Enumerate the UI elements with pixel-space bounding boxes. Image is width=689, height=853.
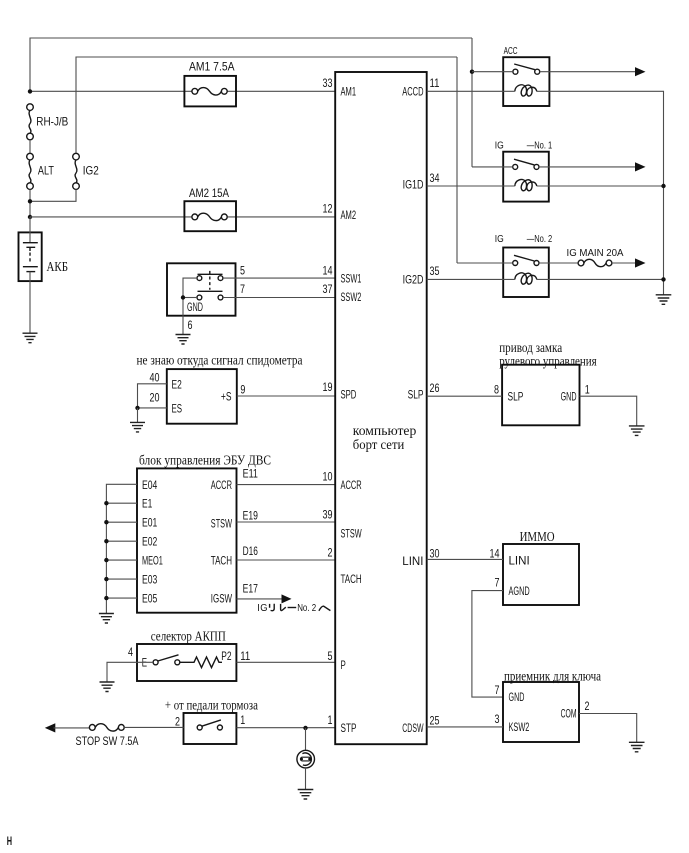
svg-text:борт сети: борт сети: [353, 438, 405, 453]
junction E01: [104, 520, 108, 524]
junction E02: [104, 539, 108, 543]
IG2D pin label: [403, 272, 424, 286]
SEC-ECU: [323, 72, 440, 744]
wire ACCR to ECU pin 10: [237, 484, 336, 486]
svg-text:30: 30: [430, 547, 440, 561]
wire IG2 switch to fuse: [539, 262, 578, 264]
wire AM1 fuse line (node B+ to ECU pin 33): [30, 90, 335, 92]
svg-text:E1: E1: [142, 497, 153, 511]
svg-text:34: 34: [430, 171, 440, 185]
svg-text:D16: D16: [243, 544, 259, 558]
wire COM to ground: [579, 714, 637, 743]
ACCD pin label: [402, 85, 423, 99]
SLP label: [508, 390, 524, 404]
wire IG1 switch feed: [472, 166, 513, 168]
IG MAIN 20A label: [567, 248, 624, 259]
pin 7 label (GND): [495, 683, 500, 697]
svg-text:ALT: ALT: [38, 164, 55, 178]
svg-text:IGSW: IGSW: [211, 592, 233, 606]
title body computer: [353, 424, 417, 453]
pin 14 label: [323, 263, 333, 277]
svg-text:компьютер: компьютер: [353, 424, 417, 439]
note IG relay No.2 destination: [257, 603, 330, 614]
pushbutton contact row 1 (SSW1): [197, 271, 223, 281]
svg-text:1: 1: [240, 713, 245, 727]
pin 10 label: [323, 470, 333, 484]
SEC-BRAKE: [45, 699, 335, 800]
AGND label: [509, 584, 530, 598]
arrow to battery feed (left): [45, 723, 56, 732]
relay ACC: [503, 57, 549, 106]
pin 33 label: [323, 76, 333, 90]
wire RH-J/B to ALT: [29, 140, 31, 154]
wire AM2 fuse line (to ECU pin 12): [30, 216, 335, 218]
svg-text:10: 10: [323, 470, 333, 484]
SEC-SPD: [130, 353, 335, 432]
svg-text:35: 35: [430, 264, 440, 278]
key receiver block: [503, 682, 579, 742]
svg-text:19: 19: [323, 380, 333, 394]
svg-text:IG1D: IG1D: [403, 178, 424, 192]
svg-text:12: 12: [323, 202, 333, 216]
svg-text:2: 2: [175, 714, 180, 728]
wire IG2 feed to IG No.2 relay: [76, 57, 457, 153]
pin 34 label: [430, 171, 440, 185]
title from brake pedal: [165, 699, 259, 714]
SPD pin label: [341, 388, 357, 402]
E02 label: [142, 535, 158, 549]
ground relay coils: [656, 295, 672, 305]
SEC-EBU: [99, 454, 335, 624]
svg-text:11: 11: [430, 76, 440, 90]
pin 1 label: [328, 713, 333, 727]
pin 26 label: [430, 381, 440, 395]
LINI label (IMMO): [509, 553, 530, 567]
fuse AM2 15A: [184, 186, 236, 231]
svg-text:2: 2: [328, 546, 333, 560]
svg-text:+ от педали тормоза: + от педали тормоза: [165, 699, 259, 714]
svg-text:E03: E03: [142, 573, 158, 587]
svg-text:селектор АКПП: селектор АКПП: [151, 630, 226, 645]
connector RH-J/B: [27, 104, 69, 140]
svg-text:9: 9: [240, 383, 245, 397]
brake switch block: [184, 713, 237, 744]
MEO1 label: [142, 554, 163, 568]
pin 2 label: [175, 714, 180, 728]
SEC-RIGHTBLOCKS: [427, 341, 645, 752]
switch contact selector: [153, 655, 180, 665]
wire ECU pin 11 to ACC coil: [427, 90, 515, 92]
pin 6 label: [188, 318, 193, 332]
svg-text:ACC: ACC: [504, 46, 518, 57]
wire IG2 vertical to relay No.2 switch: [456, 57, 458, 263]
ACCR label (inside): [211, 478, 232, 492]
wire ECU pin 35 to IG2 coil: [427, 278, 515, 280]
svg-text:E04: E04: [142, 478, 158, 492]
wire ECU pin 30 to LINI: [427, 558, 503, 560]
svg-text:не знаю откуда сигнал спидомет: не знаю откуда сигнал спидометра: [137, 353, 304, 368]
junction ES/ground: [135, 406, 139, 410]
wire battery-plus top feed to ACC/IG1 relays: [30, 38, 472, 91]
wire pin 4 to ground: [107, 662, 153, 682]
ground noise filter: [298, 790, 314, 800]
+S label: [221, 389, 232, 403]
wire ECU pin 26 to SLP: [427, 395, 502, 397]
svg-text:E01: E01: [142, 516, 158, 530]
wire AGND to key receiver GND: [472, 591, 503, 698]
wire ACC switch output arrow: [540, 67, 646, 76]
relay ACC label: [504, 46, 518, 57]
fuse IG MAIN 20A: [578, 259, 612, 266]
svg-text:STP: STP: [341, 721, 357, 735]
pin 40 label: [150, 370, 160, 384]
E1 label: [142, 497, 153, 511]
STSW label (inside): [211, 517, 233, 531]
wire TACH to ECU pin 2: [237, 559, 336, 561]
svg-text:E19: E19: [243, 509, 259, 523]
pin 2 label: [328, 546, 333, 560]
junction GND bus: [181, 295, 185, 299]
svg-text:ИММО: ИММО: [520, 530, 555, 545]
E19 label: [243, 509, 259, 523]
E2 label: [172, 378, 183, 392]
svg-text:LINI: LINI: [402, 554, 423, 568]
svg-text:IG: IG: [495, 234, 504, 245]
svg-text:P2: P2: [221, 649, 232, 663]
wire IG1 switch output arrow: [539, 162, 646, 171]
svg-text:AGND: AGND: [509, 584, 530, 598]
ground speed sensor: [130, 422, 145, 432]
AM1 pin label: [341, 85, 357, 99]
IG1D pin label: [403, 178, 424, 192]
CDSW pin label: [402, 721, 424, 735]
svg-text:6: 6: [188, 318, 193, 332]
SEC-TOPLEFT: [19, 38, 473, 343]
wire ECU pin 25 to KSW2: [427, 726, 503, 728]
title IMMO: [520, 530, 555, 545]
ground SSW: [176, 335, 191, 345]
selector switch block: [137, 644, 236, 681]
TACH label (inside): [211, 554, 232, 568]
pin 7 label: [240, 282, 245, 296]
E04 label: [142, 478, 158, 492]
pin 19 label: [323, 380, 333, 394]
svg-text:TACH: TACH: [341, 572, 362, 586]
ground steering lock: [629, 426, 645, 436]
pin 12 label: [323, 202, 333, 216]
wire STSW to ECU pin 39: [237, 521, 336, 523]
wire ACC switch feed: [472, 71, 513, 73]
svg-text:7: 7: [495, 575, 500, 589]
body computer ECU box: [335, 72, 427, 744]
svg-text:H: H: [7, 836, 12, 848]
wire arrow to fuse: [54, 727, 90, 729]
IGSW label (inside): [211, 592, 233, 606]
pin 37 label: [323, 282, 333, 296]
svg-text:E2: E2: [172, 378, 183, 392]
svg-text:TACH: TACH: [211, 554, 232, 568]
svg-text:STSW: STSW: [341, 526, 363, 540]
wire B+ vertical to relay switches: [471, 38, 473, 167]
ES label: [172, 402, 183, 416]
svg-text:14: 14: [323, 263, 333, 277]
junction E03: [104, 577, 108, 581]
SSW2 pin label: [341, 290, 362, 304]
pin 5 label: [240, 263, 245, 277]
TACH pin label: [341, 572, 362, 586]
note speedometer source: [137, 353, 304, 368]
title engine ECU: [139, 454, 271, 469]
relay IG No.2 labels: [495, 234, 553, 245]
wire SSW2 to ECU pin 37: [223, 297, 335, 299]
node B+ junction: [28, 89, 32, 93]
noise filter lamp symbol: [297, 750, 315, 768]
wire E01: [106, 521, 137, 523]
pin 3 label: [495, 712, 500, 726]
svg-text:COM: COM: [561, 707, 577, 721]
svg-text:SPD: SPD: [341, 388, 357, 402]
pin 5 label: [328, 649, 333, 663]
svg-text:8: 8: [494, 382, 499, 396]
pushbutton contact row 2 (SSW2): [197, 291, 223, 300]
E11 label: [243, 467, 259, 481]
svg-text:ACCR: ACCR: [211, 478, 232, 492]
ground engine ECU: [99, 614, 114, 624]
P2 label: [221, 649, 232, 663]
svg-text:KSW2: KSW2: [509, 720, 530, 734]
wire GND to ground: [580, 396, 637, 425]
svg-text:5: 5: [240, 263, 245, 277]
svg-text:11: 11: [240, 649, 250, 663]
svg-text:AM2 15A: AM2 15A: [189, 186, 229, 200]
AM2 pin label: [341, 208, 357, 222]
wire IG2 switch feed: [457, 262, 513, 264]
P pin label: [341, 658, 346, 672]
GND label: [561, 390, 577, 404]
wire +S to ECU pin 19 (SPD): [237, 395, 335, 397]
svg-text:14: 14: [490, 547, 500, 561]
pin 4 label: [128, 645, 133, 659]
D16 label: [243, 544, 259, 558]
pin 8 label: [494, 382, 499, 396]
pin 25 label: [430, 714, 440, 728]
svg-text:E02: E02: [142, 535, 158, 549]
ground battery: [23, 333, 38, 343]
pin 1 label: [585, 382, 590, 396]
mechanical link dashed: [209, 277, 211, 290]
svg-text:4: 4: [128, 645, 133, 659]
svg-text:IG2D: IG2D: [403, 272, 424, 286]
resistor P2: [180, 657, 222, 668]
svg-text:GND: GND: [187, 300, 203, 314]
junction ALT/IG2: [28, 199, 32, 203]
wire internal GND bus: [183, 278, 197, 316]
svg-text:2: 2: [585, 699, 590, 713]
svg-text:SSW1: SSW1: [341, 271, 362, 285]
wire ACC coil to ground bus: [537, 91, 664, 294]
pin 1 label: [240, 713, 245, 727]
wire brake switch to ECU pin 1 (STP): [236, 727, 335, 729]
wire MEO1: [106, 559, 137, 561]
svg-text:P: P: [341, 658, 346, 672]
svg-text:26: 26: [430, 381, 440, 395]
pin 20 label: [150, 391, 160, 405]
switch contact brake: [197, 720, 222, 730]
svg-text:5: 5: [328, 649, 333, 663]
svg-text:E11: E11: [243, 467, 259, 481]
speed sensor block: [167, 369, 237, 424]
wire E03: [106, 578, 137, 580]
pin 30 label: [430, 547, 440, 561]
title AT selector: [151, 630, 226, 645]
wire E02: [106, 540, 137, 542]
steering lock actuator block: [502, 365, 579, 426]
junction AM2 node: [28, 215, 32, 219]
relay IG No.2: [503, 248, 549, 298]
switch block SSW (dual pushbutton): [167, 263, 236, 315]
svg-text:IG MAIN 20A: IG MAIN 20A: [567, 248, 624, 259]
engine ECU block: [137, 468, 237, 612]
svg-text:ACCD: ACCD: [402, 85, 423, 99]
E03 label: [142, 573, 158, 587]
wire IG1 coil to ground bus: [537, 185, 664, 187]
svg-text:7: 7: [240, 282, 245, 296]
GND label: [187, 300, 203, 314]
svg-text:39: 39: [323, 508, 333, 522]
wire to ground: [137, 408, 139, 422]
svg-text:3: 3: [495, 712, 500, 726]
fuse STOP SW 7.5A: [76, 724, 139, 748]
svg-text:рулевого управления: рулевого управления: [499, 355, 597, 370]
ground selector: [100, 682, 115, 692]
wire junction to lamp: [305, 728, 307, 751]
relay IG No.1: [503, 152, 549, 202]
E05 label: [142, 592, 158, 606]
wire E1: [106, 502, 137, 504]
SEC-SSW: [167, 263, 335, 344]
LINI pin label: [402, 554, 423, 568]
junction IG2 coil ground: [661, 277, 665, 281]
svg-text:SSW2: SSW2: [341, 290, 362, 304]
STSW pin label: [341, 526, 363, 540]
wire ALT bottom to junction: [29, 189, 31, 217]
wire E04: [106, 484, 137, 613]
svg-text:GND: GND: [509, 690, 525, 704]
svg-text:MEO1: MEO1: [142, 554, 163, 568]
svg-text:7: 7: [495, 683, 500, 697]
svg-text:1: 1: [585, 382, 590, 396]
junction E05: [104, 596, 108, 600]
title key receiver: [504, 669, 602, 684]
svg-text:25: 25: [430, 714, 440, 728]
svg-text:—No. 2: —No. 2: [527, 234, 553, 245]
connector IG2: [73, 153, 99, 189]
title steering lock actuator: [499, 341, 597, 370]
junction MEO1: [104, 558, 108, 562]
pin 14 label: [490, 547, 500, 561]
svg-text:IG: IG: [257, 603, 268, 614]
svg-text:ACCR: ACCR: [341, 478, 362, 492]
svg-text:GND: GND: [561, 390, 577, 404]
ACCR pin label: [341, 478, 362, 492]
svg-text:37: 37: [323, 282, 333, 296]
pin 35 label: [430, 264, 440, 278]
IMMO block: [503, 544, 579, 605]
svg-text:IG: IG: [495, 141, 504, 152]
wire IG2 coil to ground bus: [537, 278, 664, 280]
wire IGSW to IG relay No.2 (arrow): [237, 594, 292, 603]
svg-text:—No. 1: —No. 1: [527, 141, 553, 152]
junction STP/noise filter: [303, 726, 307, 730]
wire fuse output arrow: [612, 258, 646, 267]
svg-text:1: 1: [328, 713, 333, 727]
wire IG2 bottom to junction: [30, 189, 76, 201]
svg-text:STOP SW 7.5A: STOP SW 7.5A: [76, 734, 139, 748]
connector ALT: [27, 153, 55, 189]
E01 label: [142, 516, 158, 530]
svg-text:E17: E17: [243, 582, 259, 596]
wire pin6 to ground: [182, 316, 184, 335]
fuse AM1 7.5A: [184, 60, 236, 107]
SSW1 pin label: [341, 271, 362, 285]
junction E1: [104, 501, 108, 505]
svg-text:E05: E05: [142, 592, 158, 606]
svg-text:20: 20: [150, 391, 160, 405]
ground key receiver: [629, 742, 645, 752]
GND label (key receiver): [509, 690, 525, 704]
svg-text:AM1 7.5A: AM1 7.5A: [189, 60, 235, 74]
svg-text:AM2: AM2: [341, 208, 357, 222]
junction ACC switch feed: [470, 70, 474, 74]
pin 9 label: [240, 383, 245, 397]
svg-text:АКБ: АКБ: [47, 259, 69, 274]
wire lamp to ground: [305, 768, 307, 789]
svg-text:CDSW: CDSW: [402, 721, 424, 735]
KSW2 label: [509, 720, 530, 734]
svg-text:AM1: AM1: [341, 85, 357, 99]
wire ECU pin 34 to IG1 coil: [427, 185, 515, 187]
wire pin 11 to ECU pin 5 (P): [236, 661, 335, 663]
svg-text:33: 33: [323, 76, 333, 90]
svg-text:IG2: IG2: [83, 164, 99, 178]
E17 label: [243, 582, 259, 596]
svg-text:RH-J/B: RH-J/B: [36, 115, 68, 129]
svg-text:ES: ES: [172, 402, 183, 416]
battery АКБ: [19, 217, 69, 333]
wire SSW1 to ECU pin 14: [223, 277, 335, 279]
wire fuse to brake switch: [124, 726, 183, 728]
pin 39 label: [323, 508, 333, 522]
svg-text:SLP: SLP: [408, 388, 424, 402]
pin 7 label: [495, 575, 500, 589]
wire E05: [106, 597, 137, 599]
svg-text:+S: +S: [221, 389, 232, 403]
SLP pin label: [408, 388, 424, 402]
pin 11 label: [240, 649, 250, 663]
svg-text:STSW: STSW: [211, 517, 233, 531]
COM label: [561, 707, 577, 721]
wire ES: [138, 407, 167, 409]
SEC-RELAYS: [427, 38, 672, 304]
STP pin label: [341, 721, 357, 735]
svg-text:No. 2: No. 2: [297, 603, 316, 614]
relay IG No.1 labels: [495, 141, 553, 152]
junction IG1 coil ground: [661, 184, 665, 188]
SEC-SELECTOR: [100, 630, 336, 692]
pin 2 label (COM): [585, 699, 590, 713]
svg-text:SLP: SLP: [508, 390, 524, 404]
svg-text:40: 40: [150, 370, 160, 384]
